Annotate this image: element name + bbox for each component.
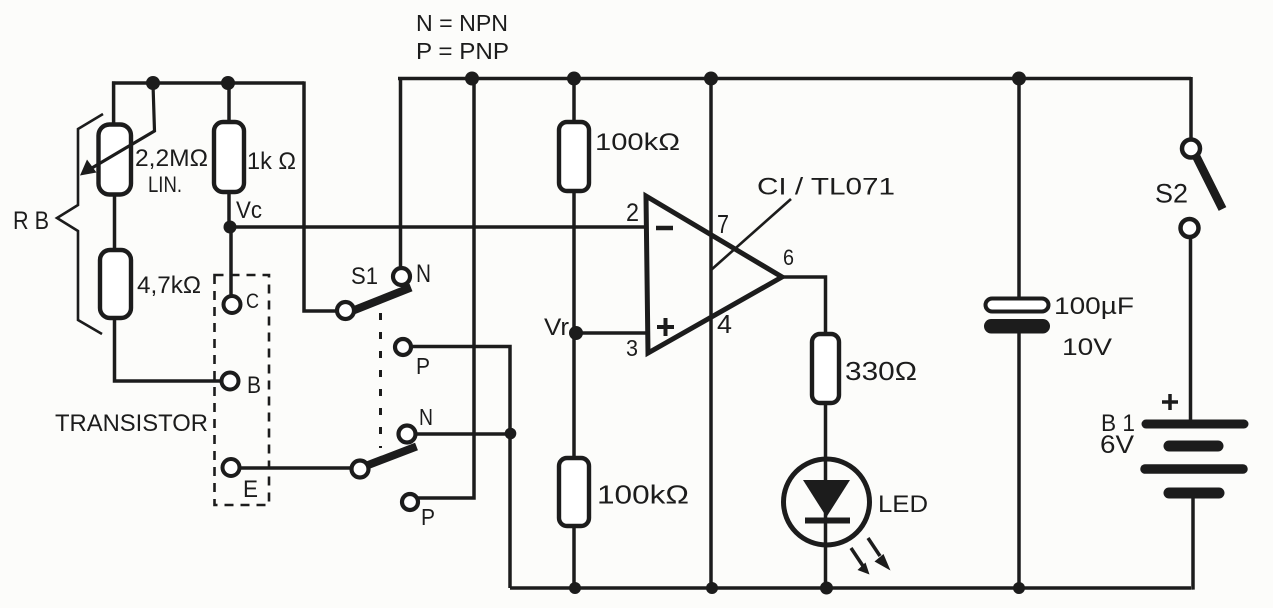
wire P2 up to V+ rail (418, 77, 474, 498)
svg-text:4,7kΩ: 4,7kΩ (137, 272, 201, 299)
switch S2 lever (1195, 154, 1223, 209)
LED light arrow 1 (851, 548, 870, 575)
label LIN. (148, 172, 182, 197)
svg-text:10V: 10V (1062, 334, 1112, 361)
switch S1 pole2 P contact (402, 494, 418, 510)
label B (247, 372, 261, 399)
label 6V (1100, 431, 1134, 459)
wire capacitor vertical (1017, 79, 1021, 589)
node junction capacitor bottom (1013, 582, 1025, 594)
label pin 6 (783, 245, 794, 270)
label CI / TL071 (757, 174, 895, 201)
LED light arrow 2 (868, 538, 891, 571)
wire battery to 0V rail (1191, 493, 1193, 590)
svg-text:330Ω: 330Ω (845, 356, 917, 386)
wire E to S1b common (239, 466, 352, 470)
svg-text:R B: R B (13, 207, 49, 235)
label legend P=PNP (416, 38, 509, 64)
svg-text:TRANSISTOR: TRANSISTOR (55, 410, 208, 437)
label 1kohm (247, 148, 296, 175)
label C (246, 290, 259, 313)
resistor 330 ohm (812, 334, 839, 403)
svg-text:C: C (246, 290, 259, 313)
wire Vr to op-amp pin 3 (576, 331, 648, 335)
wire gang dashed link (379, 313, 382, 448)
label P pole1 (416, 353, 430, 379)
resistor 100k lower (559, 458, 589, 526)
label E (243, 476, 258, 503)
svg-text:2: 2 (626, 199, 639, 227)
svg-text:S2: S2 (1155, 179, 1188, 209)
label N pole1 (416, 260, 431, 288)
svg-text:1k Ω: 1k Ω (247, 148, 296, 175)
battery plus sign (1162, 394, 1178, 410)
svg-text:100kΩ: 100kΩ (595, 129, 680, 156)
svg-text:E: E (243, 476, 258, 503)
svg-text:P: P (421, 504, 435, 530)
label 100kohm lower (597, 480, 689, 510)
LED D1 circle (784, 459, 870, 545)
leader line CI/TL071 (711, 199, 791, 270)
op-amp U1 triangle (646, 196, 782, 353)
node junction pot top (146, 76, 160, 90)
wire S1 N contact drop (399, 77, 403, 270)
wire Vc to op-amp pin 2 (230, 225, 646, 229)
wire 1k resistor vertical (227, 81, 231, 227)
svg-text:Vr: Vr (544, 314, 569, 341)
transistor socket dashed box (215, 275, 270, 505)
switch S1 pole2 common contact (352, 461, 369, 478)
capacitor C1 bottom plate (984, 319, 1050, 334)
wire S2 to battery (1189, 236, 1193, 420)
label 100uF (1054, 293, 1134, 320)
node junction divider bottom (569, 582, 581, 594)
label pin 4 (717, 309, 732, 339)
label pin 3 (626, 335, 638, 361)
label 4,7kohm (137, 272, 201, 299)
label LED (878, 491, 928, 518)
svg-text:P = PNP: P = PNP (416, 38, 509, 64)
svg-text:100kΩ: 100kΩ (597, 480, 689, 510)
brace RB (57, 114, 103, 334)
wire top-left rail (Vc rail) (112, 81, 304, 85)
battery B1 plate short 1 (1169, 441, 1218, 452)
battery B1 plate long 2 (1145, 464, 1243, 474)
potentiometer RB-a 2,2M ohm LIN (99, 125, 132, 195)
label 10V (1062, 334, 1112, 361)
wire V+ rail to S2 (1189, 77, 1193, 140)
svg-text:Vc: Vc (236, 197, 262, 224)
label S2 (1155, 179, 1188, 209)
node junction x=472 on V+ rail (465, 72, 479, 86)
label 330ohm (845, 356, 917, 386)
svg-text:LED: LED (878, 491, 928, 518)
label Vc (236, 197, 262, 224)
op-amp minus input mark (656, 226, 673, 231)
terminal E (223, 459, 240, 476)
wire Vc to C terminal (229, 227, 233, 296)
node junction capacitor top (1012, 72, 1026, 86)
LED triangle (803, 480, 850, 517)
node Vr (569, 326, 583, 340)
switch S1 pole1 N contact (393, 268, 410, 285)
wire P1 to x=510 vertical (411, 347, 510, 589)
switch S1 pole2 N contact (399, 426, 416, 443)
resistor 1k ohm (214, 122, 244, 192)
node junction LED bottom (820, 582, 833, 595)
wire pin7-pin4 vertical (709, 79, 713, 589)
op-amp plus input mark (657, 318, 674, 336)
label pin 7 (717, 209, 729, 239)
label S1 (351, 263, 378, 290)
switch S1 pole1 P contact (395, 339, 411, 355)
svg-text:LIN.: LIN. (148, 172, 182, 197)
label pin 2 (626, 199, 639, 227)
label 100kohm upper (595, 129, 680, 156)
svg-text:P: P (416, 353, 430, 379)
label B1 (1101, 410, 1135, 437)
svg-text:2,2MΩ: 2,2MΩ (135, 145, 208, 172)
label P pole2 (421, 504, 435, 530)
svg-text:3: 3 (626, 335, 638, 361)
svg-text:N = NPN: N = NPN (416, 10, 508, 36)
svg-text:B: B (247, 372, 261, 399)
svg-text:4: 4 (717, 309, 732, 339)
wire divider vertical (572, 79, 576, 589)
svg-text:6V: 6V (1100, 431, 1134, 459)
svg-text:S1: S1 (351, 263, 378, 290)
svg-text:6: 6 (783, 245, 794, 270)
svg-text:100µF: 100µF (1054, 293, 1134, 320)
resistor 100k upper (559, 122, 589, 191)
label legend N=NPN (416, 10, 508, 36)
LED cathode bar (805, 518, 850, 524)
capacitor C1 top plate (986, 299, 1049, 312)
switch S2 top contact (1182, 140, 1200, 158)
label TRANSISTOR (55, 410, 208, 437)
battery B1 plate short 2 (1169, 488, 1219, 499)
wire op-amp output to 330 (780, 277, 826, 588)
label N pole2 (419, 404, 433, 430)
node junction op-amp pin7 line top (704, 72, 718, 86)
wire S1 common drop (304, 81, 338, 311)
wire RB chain vertical (pot to 4,7k to B corner) (115, 124, 222, 381)
wire potentiometer top lead (112, 81, 116, 126)
node junction pin4 line bottom (706, 582, 718, 594)
label RB (13, 207, 49, 235)
wire top-right V+ rail (398, 77, 1191, 81)
label Vr (544, 314, 569, 341)
svg-text:N: N (416, 260, 431, 288)
switch S2 bottom contact (1181, 219, 1199, 237)
node junction divider top (567, 72, 581, 86)
node Vc (224, 221, 237, 234)
node junction 1k top (221, 76, 235, 90)
wire bottom 0V rail (510, 586, 1191, 590)
svg-text:N: N (419, 404, 433, 430)
wire N2 to junction (415, 432, 511, 436)
switch S1 pole1 lever (352, 288, 411, 312)
terminal C (224, 296, 241, 313)
battery B1 plate long 1 (1146, 420, 1244, 429)
node junction N2 (505, 428, 517, 440)
wire pot wiper from rail (86, 84, 155, 172)
switch S1 pole2 lever (363, 447, 417, 468)
svg-text:7: 7 (717, 209, 729, 239)
switch S1 pole1 common contact (337, 302, 354, 319)
label 2,2Mohm (135, 145, 208, 172)
terminal B (222, 373, 239, 390)
resistor RB-b 4,7k ohm (100, 250, 131, 318)
pot wiper arrowhead (80, 160, 97, 176)
svg-text:CI / TL071: CI / TL071 (757, 174, 895, 201)
